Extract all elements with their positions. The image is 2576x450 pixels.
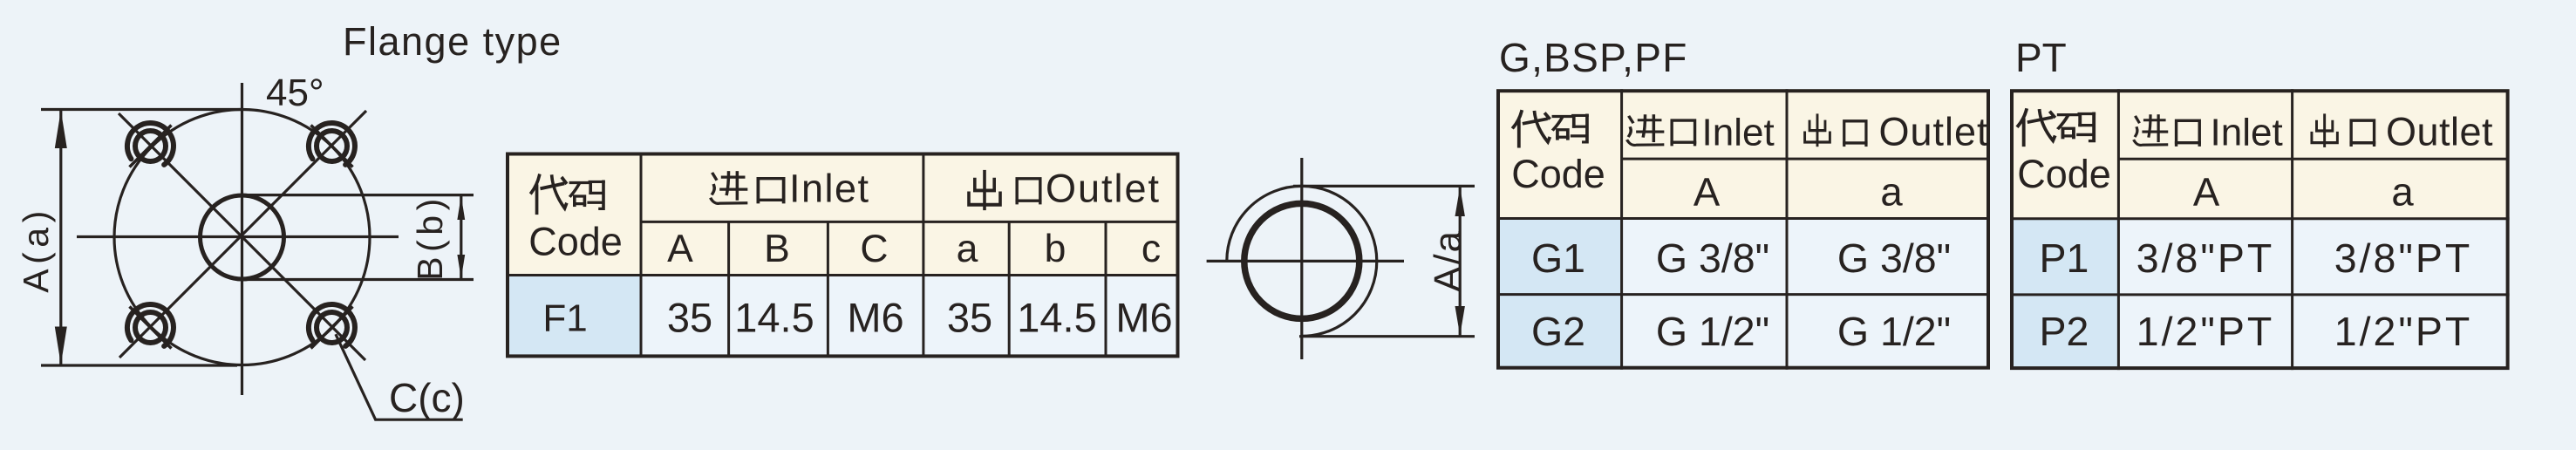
table1 divider B/C (827, 222, 829, 357)
table3 cell daima (2018, 110, 2055, 145)
svg-text:35: 35 (947, 295, 992, 341)
svg-text:C: C (860, 228, 888, 270)
svg-text:G2: G2 (1531, 309, 1585, 354)
svg-text:Inlet: Inlet (1702, 112, 1775, 154)
dimension B(b) line (460, 195, 462, 280)
table3 horizontal divider P1/P2 (2010, 293, 2510, 296)
bolt hole bottom-left (127, 304, 174, 348)
table1 divider a/b (1008, 222, 1011, 357)
table1 divider b/c (1105, 222, 1107, 357)
table1 horizontal divider data row (506, 274, 1179, 276)
svg-text:G 3/8": G 3/8" (1837, 235, 1951, 281)
svg-text:P2: P2 (2040, 309, 2089, 354)
svg-text:Inlet: Inlet (2211, 112, 2283, 154)
dimension B(b) arrowhead top (457, 196, 465, 220)
port horizontal centerline (1207, 260, 1404, 262)
svg-text:A: A (667, 228, 693, 270)
port vertical centerline (1300, 158, 1303, 359)
svg-text:PT: PT (2015, 35, 2067, 80)
table2 divider code column (1620, 89, 1623, 370)
svg-text:B(b): B(b) (410, 194, 450, 280)
table3 code cells background (2010, 219, 2118, 370)
svg-text:Code: Code (528, 220, 623, 264)
svg-text:b: b (1045, 228, 1067, 270)
svg-text:F1: F1 (542, 297, 587, 340)
dimension A(a) bottom extension line (41, 364, 237, 366)
dimension A/a arrowhead bottom (1455, 306, 1465, 336)
port bore circle (1244, 203, 1360, 318)
table2 horizontal divider header/data (1496, 217, 1990, 220)
table3 data cells background (2118, 219, 2509, 370)
table2 cell jinkou Inlet (1627, 116, 1662, 146)
svg-text:G,BSP,PF: G,BSP,PF (1499, 35, 1688, 80)
svg-text:Outlet: Outlet (1879, 110, 1989, 154)
svg-text:C(c): C(c) (389, 375, 465, 420)
table2 cell chukou Outlet (1805, 115, 1830, 146)
dimension B(b) top extension line (242, 194, 474, 196)
table2 header background (1496, 89, 1990, 218)
svg-text:P1: P1 (2040, 235, 2089, 281)
svg-text:G 1/2": G 1/2" (1837, 309, 1951, 354)
bolt hole top-right (309, 123, 355, 167)
table1 code cell background F1 (506, 276, 641, 358)
table2 horizontal divider G1/G2 (1496, 293, 1990, 296)
svg-text:3/8"PT: 3/8"PT (2136, 235, 2275, 281)
dimension A/a top extension line (1293, 185, 1475, 187)
table3 horizontal divider A row (2118, 158, 2507, 160)
svg-text:45°: 45° (266, 72, 324, 114)
table1 divider A/B (727, 222, 730, 357)
flange diagonal centerline TL-BR (119, 113, 365, 360)
svg-text:A: A (2193, 170, 2220, 215)
svg-text:Outlet: Outlet (2386, 110, 2493, 154)
svg-text:M6: M6 (847, 295, 903, 341)
table2 horizontal divider A row (1622, 158, 1988, 160)
table1 data cells background (641, 276, 1179, 358)
table3 outer border (2012, 91, 2508, 368)
bolt hole bottom-right (309, 304, 355, 348)
svg-text:A: A (1693, 170, 1721, 215)
table2 cell daima (1513, 112, 1549, 147)
table2 data cells background (1622, 219, 1990, 370)
bolt hole top-left (127, 123, 174, 167)
table1 cell jinkou Inlet (711, 173, 746, 204)
flange horizontal centerline (77, 235, 399, 238)
svg-text:Code: Code (1511, 152, 1605, 196)
table2 divider inlet/outlet (1786, 89, 1789, 370)
svg-text:1/2"PT: 1/2"PT (2136, 309, 2275, 354)
svg-text:3/8"PT: 3/8"PT (2334, 235, 2473, 281)
flange vertical centerline (241, 83, 243, 395)
port thread arc (1227, 186, 1377, 336)
flange center hole (201, 195, 284, 279)
table3 divider code column (2117, 89, 2120, 370)
table3 header background (2010, 89, 2510, 219)
svg-text:a: a (957, 228, 978, 270)
dimension A(a) arrowhead top (55, 111, 67, 149)
table3 cell jinkou Inlet (2134, 116, 2166, 146)
dimension A/a bottom extension line (1299, 335, 1475, 337)
table2 code cells background (1496, 219, 1622, 370)
svg-text:Outlet: Outlet (1046, 167, 1161, 211)
table1 cell chukou Outlet (969, 172, 1000, 208)
dimension A(a) top extension line (41, 108, 243, 111)
table3 horizontal divider header/data (2010, 217, 2510, 220)
svg-text:14.5: 14.5 (734, 295, 814, 341)
table1 divider inlet/outlet (922, 153, 924, 358)
svg-text:Code: Code (2017, 152, 2111, 196)
leader line C(c) (336, 334, 463, 419)
table1 header background (506, 153, 1179, 276)
table1 horizontal divider header row (641, 221, 1177, 223)
svg-text:c: c (1141, 228, 1161, 270)
svg-text:35: 35 (667, 295, 712, 341)
svg-text:14.5: 14.5 (1017, 295, 1096, 341)
dimension A(a) arrowhead bottom (55, 327, 67, 365)
svg-text:G 1/2": G 1/2" (1656, 309, 1769, 354)
svg-text:M6: M6 (1115, 295, 1172, 341)
table3 divider inlet/outlet (2291, 89, 2293, 370)
flange outline circle (114, 110, 370, 365)
table3 cell chukou Outlet (2312, 115, 2337, 146)
svg-text:G 3/8": G 3/8" (1656, 235, 1769, 281)
dimension A/a line (1459, 186, 1462, 336)
svg-text:Flange type: Flange type (343, 19, 562, 64)
svg-text:1/2"PT: 1/2"PT (2334, 309, 2473, 354)
dimension A/a arrowhead top (1455, 187, 1465, 216)
svg-text:B: B (764, 228, 790, 270)
table1 outer border (508, 154, 1178, 357)
svg-text:Inlet: Inlet (789, 167, 870, 211)
svg-text:a: a (2391, 170, 2414, 215)
flange diagonal centerline BL-TR (119, 111, 366, 358)
table1 divider code column (640, 153, 643, 358)
dimension B(b) bottom extension line (242, 278, 474, 281)
svg-text:A/a: A/a (1427, 229, 1469, 292)
table1 cell daima (531, 175, 566, 213)
table2 outer border (1498, 91, 1988, 368)
svg-text:a: a (1880, 170, 1903, 215)
svg-text:A(a): A(a) (16, 206, 56, 292)
svg-text:G1: G1 (1531, 235, 1585, 281)
dimension B(b) arrowhead bottom (457, 255, 465, 279)
dimension A(a) line (59, 110, 62, 366)
